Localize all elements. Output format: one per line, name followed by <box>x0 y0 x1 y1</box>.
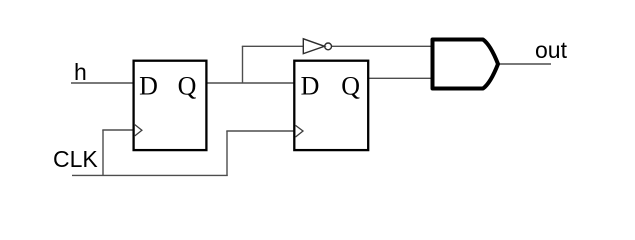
svg-text:CLK: CLK <box>53 146 98 172</box>
svg-text:out: out <box>535 37 568 63</box>
svg-text:D: D <box>139 71 158 100</box>
svg-text:Q: Q <box>178 71 197 100</box>
svg-text:Q: Q <box>341 72 360 101</box>
svg-text:h: h <box>74 59 87 85</box>
svg-text:D: D <box>301 72 320 101</box>
